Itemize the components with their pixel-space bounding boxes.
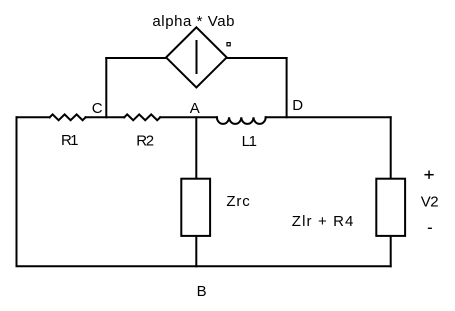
resistor R1 [50, 114, 86, 120]
wire Zrc to bottom bus [195, 237, 197, 266]
svg-text:V2: V2 [421, 193, 439, 210]
wire bus from L1 to right corner [266, 116, 391, 118]
inductor L1 [217, 117, 266, 124]
svg-text:L1: L1 [242, 133, 257, 150]
svg-text:Zrc: Zrc [226, 193, 250, 210]
wire right branch lower [390, 237, 392, 266]
wire top bus left segment [17, 116, 50, 118]
wire node D riser [286, 58, 288, 117]
wire right branch upper [390, 117, 392, 177]
wire from dependent source right to D riser [227, 57, 287, 59]
wire node C riser [105, 58, 107, 117]
svg-text:R1: R1 [61, 132, 79, 149]
svg-text:B: B [197, 283, 207, 300]
wire from C riser to dependent source left [106, 57, 166, 59]
svg-text:R2: R2 [136, 133, 154, 150]
V2 plus sign [424, 171, 433, 179]
wire bus between R2 and L1 [160, 116, 217, 118]
wire node A riser [195, 117, 197, 177]
wire left loop: top-left corner down and along bottom bus to right branch [17, 117, 391, 266]
dependent source alpha*Vab (diamond) [166, 27, 227, 87]
resistor R2 [124, 114, 160, 120]
svg-text:Zlr + R4: Zlr + R4 [292, 213, 354, 230]
wire bus between R1 and R2 [86, 116, 125, 118]
impedance Zrc (box) [181, 179, 210, 236]
dependent source inner bar [196, 41, 198, 73]
svg-text:D: D [292, 97, 303, 114]
polarity marker square of dependent source [227, 43, 230, 46]
voltage source V2 (box) [376, 179, 405, 236]
svg-text:A: A [190, 100, 200, 117]
V2 minus sign [428, 227, 432, 229]
svg-text:C: C [92, 100, 103, 117]
svg-text:alpha * Vab: alpha * Vab [152, 13, 234, 30]
